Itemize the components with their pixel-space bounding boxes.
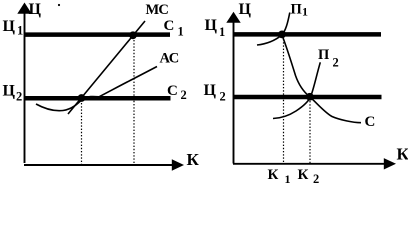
svg-text:2: 2	[16, 90, 22, 104]
svg-text:2: 2	[333, 56, 339, 70]
svg-text:К: К	[268, 167, 279, 183]
right price line Ц1	[234, 32, 381, 37]
svg-text:МС: МС	[146, 2, 169, 18]
left x-axis arrowhead	[172, 159, 184, 170]
svg-text:Ц: Ц	[204, 82, 217, 99]
svg-text:АС: АС	[160, 51, 179, 67]
svg-text:П: П	[318, 47, 329, 63]
svg-text:Ц: Ц	[3, 18, 16, 35]
curve MC line	[68, 21, 145, 114]
left price line Ц2	[25, 96, 171, 101]
curve AC	[36, 67, 157, 111]
svg-text:2: 2	[181, 88, 187, 102]
svg-text:Ц: Ц	[29, 1, 42, 18]
svg-text:2: 2	[220, 90, 226, 104]
svg-text:Ц: Ц	[239, 1, 252, 18]
right price line Ц2	[234, 95, 382, 99]
svg-text:С: С	[164, 18, 175, 34]
speckle	[58, 4, 60, 6]
svg-text:С: С	[167, 83, 178, 99]
svg-text:К: К	[298, 167, 309, 183]
svg-text:1: 1	[219, 25, 225, 39]
left x-axis	[24, 164, 174, 166]
svg-text:П: П	[291, 1, 302, 17]
dot at MC-AC-Ц2 intersection	[78, 94, 86, 102]
dot at П1-С-Ц1 intersection	[278, 31, 286, 39]
svg-text:2: 2	[313, 172, 319, 184]
curve C demand	[282, 35, 361, 123]
dotted line below left dot 2	[133, 40, 135, 164]
left price line Ц1	[25, 32, 171, 37]
dotted line below right dot 2	[309, 101, 311, 163]
dotted line below left dot 1	[81, 103, 83, 164]
svg-text:Ц: Ц	[3, 83, 16, 100]
right y-axis arrowhead	[226, 12, 240, 23]
svg-text:1: 1	[302, 5, 308, 19]
left y-axis	[24, 12, 26, 163]
dot at MC-Ц1 intersection	[129, 31, 137, 39]
dotted line below right dot 1	[283, 39, 285, 163]
svg-text:С: С	[365, 114, 376, 130]
svg-text:Ц: Ц	[205, 17, 218, 34]
right x-axis	[233, 163, 385, 165]
right y-axis	[233, 21, 235, 164]
svg-text:1: 1	[17, 24, 23, 38]
curve П2 supply	[273, 62, 320, 118]
dot at П2-С-Ц2 intersection	[306, 93, 314, 101]
curve П1 supply	[257, 13, 290, 46]
svg-text:1: 1	[178, 25, 184, 39]
right x-axis arrowhead	[384, 158, 396, 169]
left y-axis arrowhead	[17, 3, 31, 14]
svg-text:1: 1	[285, 172, 291, 184]
svg-text:К: К	[397, 145, 408, 164]
svg-text:К: К	[187, 150, 200, 169]
